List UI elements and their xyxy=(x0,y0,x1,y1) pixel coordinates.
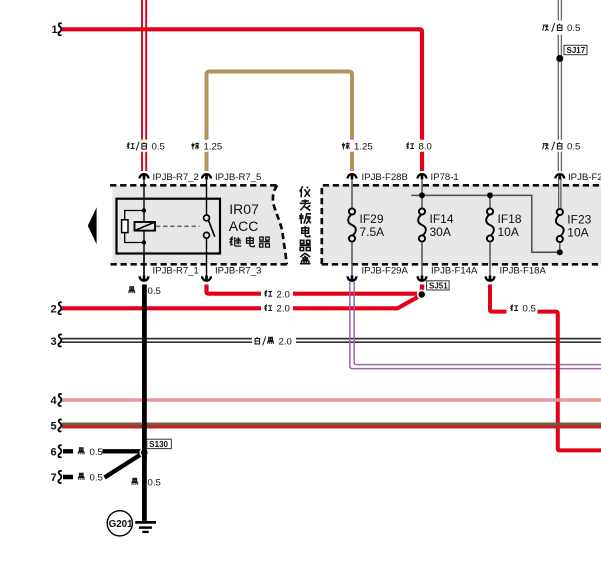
fuse IF18 10A xyxy=(486,195,522,275)
wire: red stub tip into SJ51 xyxy=(420,285,424,289)
wire: grey/white 0.5 vertical (to IPJB-F23) xyxy=(558,0,561,171)
wire 6: black 0.5 into S130 xyxy=(63,449,141,453)
pin IPJB-F14A xyxy=(418,266,478,281)
fuse IF23 10A xyxy=(556,209,592,249)
wire: black through S130 xyxy=(142,445,147,460)
svg-text:0.5: 0.5 xyxy=(148,477,161,488)
wire number 5 xyxy=(51,419,62,432)
label 灰/白 0.5 (top) xyxy=(543,23,562,32)
label 黑 0.5 (wire 6) xyxy=(78,448,85,455)
relay coil (box with diagonal) xyxy=(135,222,156,231)
junction label SJ51 xyxy=(427,281,450,291)
relay actuation dashed link xyxy=(156,225,200,227)
label 黑 0.5 (wire 7) xyxy=(78,473,85,480)
label 黑 0.5 (relay ground lead) xyxy=(128,287,135,294)
svg-text:S130: S130 xyxy=(149,440,168,449)
node: IF18 top junction dot xyxy=(487,192,493,198)
svg-text:IF14: IF14 xyxy=(430,212,454,226)
svg-text:8.0: 8.0 xyxy=(419,142,432,153)
wire number 1 xyxy=(52,23,62,36)
wire 3: white/black 2.0 double line xyxy=(62,339,601,343)
svg-text:0.5: 0.5 xyxy=(567,142,580,153)
svg-text:6: 6 xyxy=(51,446,57,458)
wire 1: red horizontal feed xyxy=(62,27,420,31)
svg-text:0.5: 0.5 xyxy=(90,472,103,483)
junction S130 dot xyxy=(141,449,148,456)
svg-text:0.5: 0.5 xyxy=(148,286,161,297)
svg-text:IR07: IR07 xyxy=(229,201,259,217)
wire: red 0.5 from IPJB-F18A routed to right edge xyxy=(490,285,601,451)
label 黑 0.5 (ground lead) xyxy=(131,478,138,485)
svg-text:0.5: 0.5 xyxy=(152,142,165,153)
wire: red 2.0 from IPJB-R7_3 to SJ51 xyxy=(207,285,420,294)
svg-text:IP78-1: IP78-1 xyxy=(431,172,459,183)
svg-text:1.25: 1.25 xyxy=(354,142,373,153)
pin IPJB-R7_5 xyxy=(202,172,261,199)
ground name G201 xyxy=(107,511,133,536)
fuse IF29 7.5A xyxy=(348,208,384,275)
wire 5: brown over dark red pair xyxy=(62,424,601,427)
svg-text:IF23: IF23 xyxy=(567,212,591,226)
wire: red stub from IPJB-F14A to SJ51 xyxy=(420,285,424,293)
svg-text:2: 2 xyxy=(51,303,57,315)
wire: red/white 0.5 vertical (to IPJB-R7_2) xyxy=(142,0,146,171)
svg-text:10A: 10A xyxy=(498,225,519,239)
pin IPJB-R7_3 xyxy=(202,266,261,281)
svg-text:G201: G201 xyxy=(109,519,134,530)
wire number 7 xyxy=(51,471,62,484)
junction SJ51 white halo xyxy=(417,290,427,300)
ground symbol xyxy=(135,522,156,532)
junction label S130 xyxy=(147,439,172,449)
svg-text:2.0: 2.0 xyxy=(277,289,290,300)
wire number 4 xyxy=(51,394,62,407)
pin IPJB-F29A xyxy=(348,266,409,281)
wire number 3 xyxy=(51,334,62,348)
svg-text:IPJB-F14A: IPJB-F14A xyxy=(431,266,478,277)
wire: red 8.0 corner and vertical to IP78-1 xyxy=(419,29,423,171)
label 红 8.0 xyxy=(407,142,414,148)
label 棕 1.25 (left) xyxy=(191,142,199,149)
svg-text:5: 5 xyxy=(51,421,57,433)
svg-text:SJ17: SJ17 xyxy=(567,46,586,55)
svg-text:IPJB-R7_5: IPJB-R7_5 xyxy=(215,172,261,183)
node B: coil bottom junction dot xyxy=(142,240,146,244)
wire number 6 xyxy=(51,445,62,458)
relay name label 继电器 xyxy=(230,236,270,247)
relay coil bottom lead xyxy=(143,243,145,276)
junction S130 white halo xyxy=(139,448,149,458)
pin IPJB-R7_2 xyxy=(140,172,199,199)
wire 4: pink xyxy=(62,398,601,402)
svg-text:0.5: 0.5 xyxy=(567,23,580,34)
svg-text:IPJB-F23: IPJB-F23 xyxy=(568,172,601,183)
wire: black 0.5 from IPJB-R7_1 down to S130 and ground xyxy=(142,285,147,521)
wire 7: black 0.5 diagonal into S130 xyxy=(63,454,142,478)
svg-text:IF18: IF18 xyxy=(498,212,522,226)
svg-text:2.0: 2.0 xyxy=(279,337,292,348)
label 红 0.5 xyxy=(511,304,518,310)
pin IPJB-F18A xyxy=(486,266,547,281)
svg-text:4: 4 xyxy=(51,395,58,407)
svg-text:SJ51: SJ51 xyxy=(429,281,448,290)
svg-text:7: 7 xyxy=(51,472,57,484)
svg-text:3: 3 xyxy=(51,336,57,348)
junction SJ51 dot xyxy=(418,291,425,298)
wire: brown 1.25 loop IPJB-R7_5 to IPJB-F28B xyxy=(207,72,353,172)
relay IR07 solid outline box xyxy=(117,199,221,254)
relay switch contacts and lever xyxy=(204,199,215,276)
svg-text:IPJB-F29A: IPJB-F29A xyxy=(362,266,409,277)
relay coil branch wire xyxy=(143,199,145,243)
svg-text:IPJB-R7_1: IPJB-R7_1 xyxy=(153,266,199,277)
svg-text:IPJB-F28B: IPJB-F28B xyxy=(362,172,408,183)
pin IPJB-F23 xyxy=(555,172,601,209)
junction SJ17 dot xyxy=(556,55,563,62)
svg-text:1: 1 xyxy=(52,24,58,36)
wire 2: red 2.0 with diagonal into SJ51 xyxy=(62,296,420,309)
node A: coil top junction dot xyxy=(142,208,146,212)
pin IPJB-R7_1 xyxy=(140,254,199,282)
relay resistor branch xyxy=(125,211,144,243)
svg-text:30A: 30A xyxy=(430,225,451,239)
junction label SJ17 xyxy=(564,45,587,55)
svg-text:2.0: 2.0 xyxy=(277,304,290,315)
svg-text:IPJB-R7_2: IPJB-R7_2 xyxy=(153,172,199,183)
pin IPJB-F28B xyxy=(348,172,408,208)
internal bus: stub + line IF14 to IF18 to IF23 xyxy=(411,195,557,252)
node label: 仪表板电器盒 (instrument panel electrical box) vertical text xyxy=(299,186,311,264)
svg-text:0.5: 0.5 xyxy=(90,447,103,458)
svg-text:1.25: 1.25 xyxy=(204,142,223,153)
fuse IF14 30A xyxy=(418,195,454,275)
wire: purple double line from IPJB-F29A xyxy=(350,282,601,369)
svg-text:ACC: ACC xyxy=(229,218,259,234)
svg-text:10A: 10A xyxy=(567,225,588,239)
node: IF23 bottom junction dot xyxy=(557,249,563,255)
label 灰/白 0.5 (lower) xyxy=(543,142,562,151)
svg-text:IF29: IF29 xyxy=(360,212,384,226)
relay pointer triangle xyxy=(88,207,97,244)
label 棕 1.25 (right) xyxy=(342,142,350,149)
relay resistor xyxy=(122,220,128,233)
svg-text:0.5: 0.5 xyxy=(523,304,536,315)
svg-text:IPJB-F18A: IPJB-F18A xyxy=(500,266,547,277)
label 红 2.0 (wire 2) xyxy=(265,304,272,310)
instrument panel junction box (fuse box) dashed enclosure xyxy=(322,185,601,264)
label 红/白 0.5 xyxy=(127,142,146,151)
svg-text:IPJB-R7_3: IPJB-R7_3 xyxy=(215,266,261,277)
wire number 2 xyxy=(51,302,62,315)
node: IF14 top junction dot xyxy=(419,192,425,198)
relay name label IR07 ACC xyxy=(229,201,259,234)
relay dashed enclosure with torn right edge xyxy=(110,185,287,264)
svg-text:7.5A: 7.5A xyxy=(360,225,385,239)
label 红 2.0 (upper) xyxy=(265,290,272,296)
pin IP78-1 xyxy=(418,172,459,195)
label 白/黑 2.0 xyxy=(255,337,274,346)
